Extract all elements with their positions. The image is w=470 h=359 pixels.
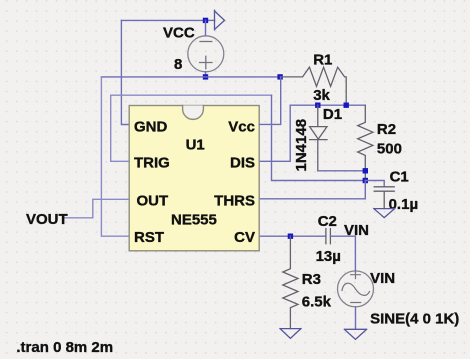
ground below R3 bbox=[280, 329, 301, 339]
voltage source VCC body bbox=[188, 36, 224, 72]
VIN source sine wave bbox=[342, 283, 370, 295]
node R1 left bbox=[277, 74, 282, 79]
svg-text:RST: RST bbox=[134, 229, 164, 246]
svg-text:VIN: VIN bbox=[370, 270, 395, 287]
node at VCC source bottom bbox=[203, 74, 208, 79]
VCC source minus sign bbox=[200, 41, 212, 43]
svg-text:R1: R1 bbox=[313, 52, 332, 69]
node C1/THRS bbox=[363, 178, 368, 183]
wire riser down to THRS/C1 node bbox=[272, 95, 366, 180]
wire D1 bottom to R2 bottom node bbox=[318, 170, 366, 172]
wire node to flag bbox=[206, 19, 215, 21]
diode D1 bbox=[310, 105, 327, 171]
svg-text:SINE(4 0 1K): SINE(4 0 1K) bbox=[370, 310, 459, 327]
svg-text:VIN: VIN bbox=[344, 222, 369, 239]
capacitor C2 bbox=[326, 229, 331, 244]
resistor R1 bbox=[280, 67, 346, 105]
svg-text:R2: R2 bbox=[377, 121, 396, 138]
svg-text:8: 8 bbox=[174, 56, 182, 73]
VIN source circle bbox=[338, 271, 374, 307]
wire Vcc pin up to R1 node bbox=[260, 77, 281, 125]
svg-text:500: 500 bbox=[377, 141, 402, 158]
wire OUT to VOUT label bbox=[65, 199, 130, 218]
svg-text:CV: CV bbox=[234, 229, 255, 246]
node at VCC source top bbox=[203, 18, 208, 23]
resistor R3 bbox=[283, 236, 298, 328]
svg-text:C2: C2 bbox=[318, 213, 337, 230]
svg-text:13µ: 13µ bbox=[316, 248, 341, 265]
VIN source minus sign bbox=[351, 302, 361, 304]
resistor R2 bbox=[358, 105, 373, 180]
wire DIS up to D1 node bbox=[259, 105, 290, 161]
capacitor C1 bbox=[374, 187, 394, 209]
VIN source bottom lead bbox=[355, 307, 357, 329]
svg-text:Vcc: Vcc bbox=[228, 118, 255, 135]
svg-text:D1: D1 bbox=[323, 106, 342, 123]
wire C2 to VIN source bbox=[330, 236, 355, 271]
ground below VIN bbox=[344, 329, 366, 339]
wire top from GND riser to VCC flag node bbox=[121, 19, 205, 21]
svg-text:THRS: THRS bbox=[214, 192, 255, 209]
svg-text:C1: C1 bbox=[390, 169, 409, 186]
svg-text:U1: U1 bbox=[186, 137, 205, 154]
VCC source top lead bbox=[205, 20, 207, 35]
svg-text:NE555: NE555 bbox=[171, 212, 217, 229]
svg-text:R3: R3 bbox=[302, 271, 321, 288]
wire y77 from left riser to R1 bbox=[101, 76, 280, 78]
IC U1 NE555 body bbox=[129, 106, 259, 251]
svg-text:DIS: DIS bbox=[230, 155, 255, 172]
wire y105 DIS/D1/R1/R2 net bbox=[290, 104, 365, 106]
svg-text:6.5k: 6.5k bbox=[302, 294, 332, 311]
svg-text:.tran 0 8m 2m: .tran 0 8m 2m bbox=[16, 339, 113, 356]
ground below C1 bbox=[374, 209, 395, 218]
node R2/D1 bottom bbox=[363, 168, 368, 173]
VCC net flag bbox=[215, 10, 225, 30]
svg-text:TRIG: TRIG bbox=[134, 155, 170, 172]
node CV/R3 bbox=[288, 234, 293, 239]
node D1 top bbox=[315, 103, 320, 108]
wire vertical into GND pin bbox=[121, 20, 129, 124]
VCC source plus sign bbox=[200, 56, 212, 68]
svg-text:VOUT: VOUT bbox=[26, 211, 68, 228]
node R1/R2 junction bbox=[344, 103, 349, 108]
svg-text:OUT: OUT bbox=[137, 192, 169, 209]
wire THRS to node bbox=[259, 181, 365, 199]
wire CV to C2 bbox=[259, 235, 326, 237]
wire node to C1 bbox=[365, 181, 384, 187]
wire TRIG to mid riser bbox=[111, 95, 272, 161]
svg-text:3k: 3k bbox=[313, 87, 330, 104]
VIN source plus sign bbox=[351, 271, 361, 279]
svg-text:1N4148: 1N4148 bbox=[293, 119, 310, 172]
svg-text:VCC: VCC bbox=[163, 25, 195, 42]
VCC source bottom lead bbox=[205, 72, 207, 77]
svg-text:GND: GND bbox=[134, 118, 168, 135]
wire left riser down into RST pin bbox=[101, 77, 129, 236]
